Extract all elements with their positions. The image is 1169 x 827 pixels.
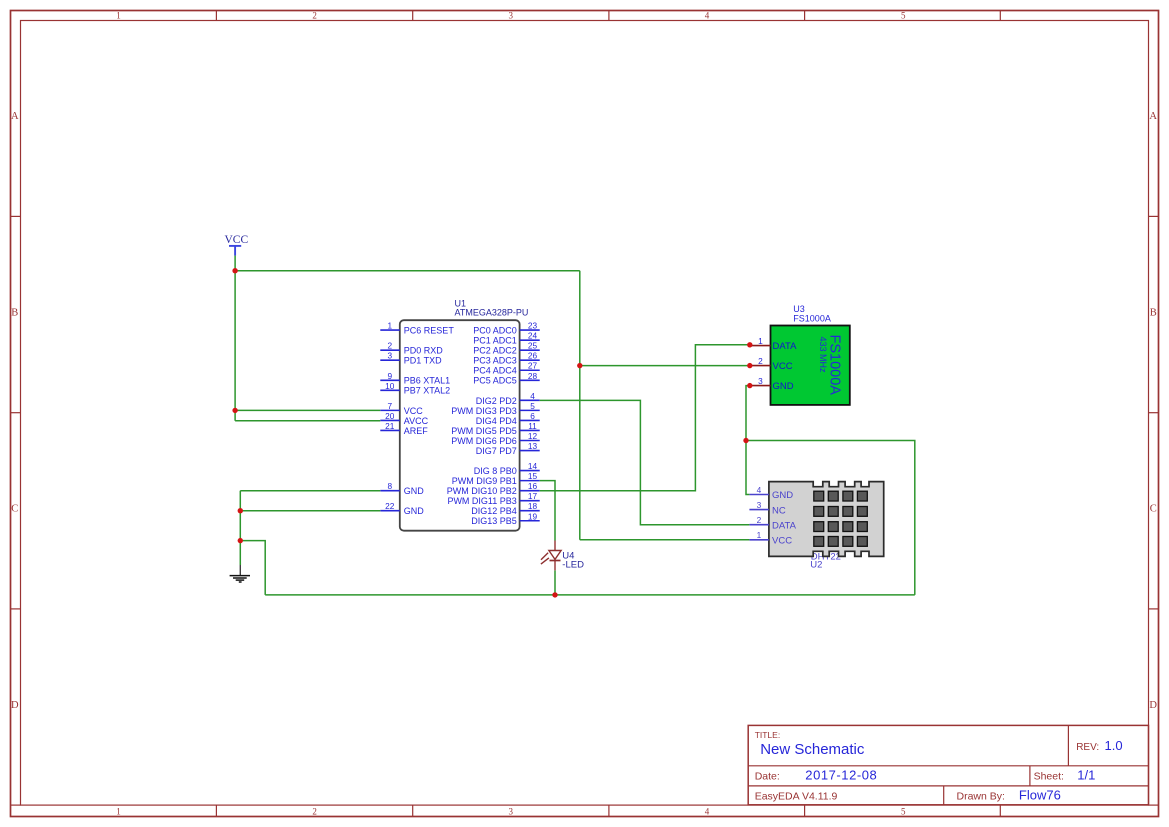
U1 pin 3 (PD1 TXD) [380, 351, 442, 366]
svg-text:VCC: VCC [404, 406, 424, 416]
U1 pin 16 (PWM DIG10 PB2) [447, 481, 540, 496]
svg-text:1.0: 1.0 [1105, 738, 1123, 753]
svg-text:DIG2 PD2: DIG2 PD2 [476, 396, 517, 406]
RF module U3 FS1000A body [771, 304, 850, 405]
svg-text:U2: U2 [810, 560, 822, 571]
svg-text:D: D [11, 700, 19, 711]
svg-text:C: C [11, 504, 18, 515]
U1 pin 7 (VCC) [380, 401, 423, 416]
svg-text:PB6 XTAL1: PB6 XTAL1 [404, 376, 450, 386]
svg-text:D: D [1149, 700, 1157, 711]
svg-text:PB7 XTAL2: PB7 XTAL2 [404, 386, 450, 396]
svg-text:PC5 ADC5: PC5 ADC5 [473, 376, 517, 386]
wire net: LED cathode to bottom rail [554, 571, 556, 595]
svg-text:U3: U3 [793, 304, 805, 314]
svg-text:2: 2 [312, 11, 317, 21]
wire net: U1 pin 16 to U3 pin 1 DATA [540, 345, 750, 491]
svg-text:3: 3 [757, 500, 762, 510]
svg-text:PD0 RXD: PD0 RXD [404, 346, 444, 356]
U1 pin 26 (PC3 ADC3) [473, 351, 539, 366]
svg-text:4: 4 [530, 391, 535, 401]
wire VCC net: to U1 pin 20 AVCC [235, 420, 380, 422]
svg-text:PD1 TXD: PD1 TXD [404, 356, 442, 366]
U1 pin 4 (DIG2 PD2) [476, 391, 540, 406]
svg-text:PWM DIG9 PB1: PWM DIG9 PB1 [452, 476, 517, 486]
U1 pin 8 (GND) [380, 481, 424, 496]
U3 pin 1 (DATA) [750, 336, 797, 352]
U1 pin 14 (DIG 8 PB0) [474, 461, 540, 476]
LED U4 [541, 541, 584, 571]
U1 pin 23 (PC0 ADC0) [473, 321, 539, 336]
svg-text:19: 19 [528, 511, 538, 521]
svg-text:TITLE:: TITLE: [755, 730, 781, 740]
wire net: U1 pin 15 to LED anode [540, 481, 555, 541]
svg-text:3: 3 [758, 376, 763, 386]
svg-text:PWM DIG6 PD6: PWM DIG6 PD6 [451, 436, 517, 446]
svg-text:25: 25 [528, 341, 538, 351]
junction LED to bottom rail [552, 592, 557, 597]
junction GND right branch [743, 438, 748, 443]
svg-text:VCC: VCC [772, 536, 792, 547]
svg-text:6: 6 [530, 411, 535, 421]
U1 pin 19 (DIG13 PB5) [471, 511, 539, 526]
U1 pin 5 (PWM DIG3 PD3) [451, 401, 539, 416]
junction U1 pin22 row [238, 508, 243, 513]
U1 pin 18 (DIG12 PB4) [471, 501, 539, 516]
svg-text:21: 21 [385, 421, 395, 431]
U1 pin 22 (GND) [380, 501, 424, 516]
svg-text:5: 5 [901, 11, 906, 21]
U3 pin 3 (GND) [750, 376, 794, 392]
wire VCC net: bottom run to U2 pin 1 VCC [580, 539, 750, 541]
junction ground branch [238, 538, 243, 543]
svg-text:1: 1 [387, 321, 392, 331]
U1 pin 2 (PD0 RXD) [380, 341, 443, 356]
svg-text:11: 11 [528, 421, 537, 431]
svg-text:PWM DIG3 PD3: PWM DIG3 PD3 [451, 406, 517, 416]
IC U1 ATMEGA328P-PU body [400, 299, 529, 531]
wire GND net: U1 pin 8 to left vertical [240, 490, 380, 492]
svg-text:17: 17 [528, 491, 538, 501]
svg-text:PC3 ADC3: PC3 ADC3 [473, 356, 517, 366]
svg-text:PC0 ADC0: PC0 ADC0 [473, 326, 517, 336]
U1 pin 15 (PWM DIG9 PB1) [452, 471, 540, 486]
svg-text:EasyEDA V4.11.9: EasyEDA V4.11.9 [755, 791, 838, 803]
svg-text:DIG7 PD7: DIG7 PD7 [476, 446, 517, 456]
junction VCC/U3 branch [577, 363, 582, 368]
svg-text:PWM DIG11 PB3: PWM DIG11 PB3 [447, 496, 516, 506]
wire VCC net: vertical x=580 [579, 271, 581, 540]
wire VCC net: to U1 pin 7 VCC [235, 409, 380, 411]
svg-text:PC4 ADC4: PC4 ADC4 [473, 366, 517, 376]
svg-text:C: C [1150, 504, 1157, 515]
U1 pin 21 (AREF) [380, 421, 428, 436]
junction U3 pin 1 [747, 342, 752, 347]
svg-text:New Schematic: New Schematic [760, 741, 865, 758]
svg-text:2: 2 [758, 356, 763, 366]
svg-text:18: 18 [528, 501, 538, 511]
ground [230, 565, 250, 582]
svg-text:5: 5 [530, 401, 535, 411]
U1 pin 28 (PC5 ADC5) [473, 371, 539, 386]
svg-text:1: 1 [116, 11, 121, 21]
U1 pin 12 (PWM DIG6 PD6) [451, 431, 539, 446]
U2 pin 1 (VCC) [749, 530, 792, 546]
svg-text:PC2 ADC2: PC2 ADC2 [473, 346, 517, 356]
svg-text:PWM DIG10 PB2: PWM DIG10 PB2 [447, 486, 517, 496]
U2 pin 3 (NC) [749, 500, 785, 516]
wire GND net: left vertical down to ground [239, 491, 241, 565]
svg-text:GND: GND [772, 490, 793, 501]
svg-text:3: 3 [509, 806, 514, 816]
svg-text:NC: NC [772, 505, 786, 516]
U3 pin 2 (VCC) [750, 356, 793, 372]
wire GND net: U1 pin 22 branch [240, 510, 380, 512]
svg-text:1: 1 [758, 336, 763, 346]
svg-text:DIG12 PB4: DIG12 PB4 [471, 506, 517, 516]
svg-text:VCC: VCC [773, 361, 793, 372]
svg-text:26: 26 [528, 351, 538, 361]
U1 pin 9 (PB6 XTAL1) [380, 371, 450, 386]
svg-text:DIG 8 PB0: DIG 8 PB0 [474, 466, 517, 476]
svg-text:AREF: AREF [404, 426, 429, 436]
svg-text:1: 1 [757, 530, 762, 540]
svg-text:DIG13 PB5: DIG13 PB5 [471, 516, 517, 526]
power flag VCC [225, 234, 249, 256]
U1 pin 6 (DIG4 PD4) [476, 411, 540, 426]
svg-text:Date:: Date: [755, 771, 780, 783]
junction U3 pin 2 [747, 363, 752, 368]
svg-text:5: 5 [901, 806, 906, 816]
svg-text:12: 12 [528, 431, 538, 441]
svg-text:GND: GND [404, 486, 425, 496]
svg-text:PC6 RESET: PC6 RESET [404, 326, 455, 336]
svg-text:4: 4 [757, 485, 762, 495]
svg-text:3: 3 [509, 11, 514, 21]
U2 pin 4 (GND) [749, 485, 793, 501]
wire GND net: branch right to bottom rail [746, 441, 915, 595]
U1 pin 27 (PC4 ADC4) [473, 361, 539, 376]
svg-text:7: 7 [387, 401, 392, 411]
svg-text:10: 10 [385, 381, 395, 391]
svg-text:2: 2 [312, 806, 317, 816]
svg-text:ATMEGA328P-PU: ATMEGA328P-PU [455, 308, 529, 318]
sensor U2 DHT22 body [769, 482, 884, 571]
svg-text:13: 13 [528, 441, 538, 451]
svg-text:1: 1 [116, 806, 121, 816]
U1 pin 1 (PC6 RESET) [380, 321, 454, 336]
svg-text:2: 2 [387, 341, 392, 351]
U1 pin 24 (PC1 ADC1) [473, 331, 539, 346]
svg-text:DIG4 PD4: DIG4 PD4 [476, 416, 517, 426]
svg-text:3: 3 [387, 351, 392, 361]
svg-text:B: B [11, 307, 18, 318]
svg-text:AVCC: AVCC [404, 416, 429, 426]
svg-text:Drawn By:: Drawn By: [957, 791, 1005, 803]
svg-text:GND: GND [404, 506, 425, 516]
svg-text:VCC: VCC [225, 234, 249, 246]
svg-text:PC1 ADC1: PC1 ADC1 [473, 336, 517, 346]
svg-text:4: 4 [705, 11, 710, 21]
svg-text:433 MHz: 433 MHz [818, 337, 828, 374]
U1 pin 17 (PWM DIG11 PB3) [447, 491, 539, 506]
svg-text:4: 4 [705, 806, 710, 816]
svg-text:16: 16 [528, 481, 538, 491]
svg-text:23: 23 [528, 321, 538, 331]
svg-text:Flow76: Flow76 [1019, 788, 1061, 803]
svg-text:GND: GND [773, 381, 794, 392]
junction U1 pin7 row [232, 408, 237, 413]
junction U3 pin 3 [747, 383, 752, 388]
U1 pin 10 (PB7 XTAL2) [380, 381, 450, 396]
svg-text:-LED: -LED [562, 559, 584, 570]
svg-text:9: 9 [387, 371, 392, 381]
U2 pin 2 (DATA) [749, 515, 796, 531]
svg-text:24: 24 [528, 331, 538, 341]
svg-text:2017-12-08: 2017-12-08 [805, 768, 877, 783]
svg-text:28: 28 [528, 371, 538, 381]
U1 pin 20 (AVCC) [380, 411, 428, 426]
svg-text:A: A [11, 111, 19, 122]
VCC flag junction [232, 268, 237, 273]
wire net: U1 pin 4 to U2 pin 2 DATA [540, 400, 750, 524]
U1 pin 25 (PC2 ADC2) [473, 341, 539, 356]
svg-text:FS1000A: FS1000A [793, 313, 831, 323]
svg-text:1/1: 1/1 [1077, 768, 1095, 783]
svg-text:PWM DIG5 PD5: PWM DIG5 PD5 [451, 426, 517, 436]
wire GND net: bottom rail [265, 594, 915, 596]
svg-text:B: B [1150, 307, 1157, 318]
svg-text:20: 20 [385, 411, 395, 421]
wire GND net: U3 pin 3 down [746, 386, 750, 495]
wire VCC net: flag to top-right corner [235, 270, 580, 272]
svg-text:A: A [1149, 111, 1157, 122]
wire GND net: branch toward bottom rail [240, 541, 265, 595]
U1 pin 13 (DIG7 PD7) [476, 441, 540, 456]
svg-text:2: 2 [757, 515, 762, 525]
svg-text:27: 27 [528, 361, 538, 371]
svg-text:DATA: DATA [772, 520, 797, 531]
wire VCC net: vertical to U1 power pins [234, 271, 236, 421]
svg-text:DATA: DATA [773, 341, 798, 352]
svg-text:14: 14 [528, 461, 538, 471]
svg-text:REV:: REV: [1076, 742, 1099, 753]
wire VCC flag down to junction [234, 256, 236, 271]
svg-text:15: 15 [528, 471, 538, 481]
svg-text:8: 8 [387, 481, 392, 491]
svg-text:22: 22 [385, 501, 395, 511]
svg-text:Sheet:: Sheet: [1034, 771, 1064, 783]
U1 pin 11 (PWM DIG5 PD5) [451, 421, 539, 436]
wire VCC net: branch to U3 pin 2 VCC [580, 365, 750, 367]
